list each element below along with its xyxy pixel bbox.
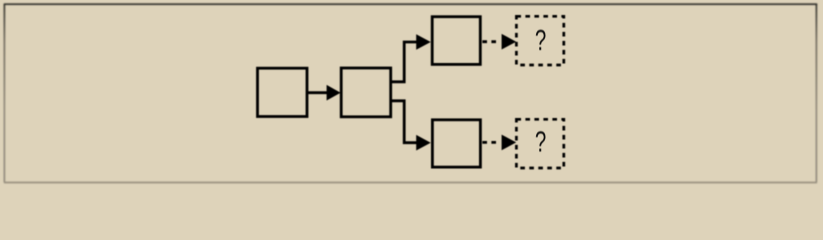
box B — [341, 68, 391, 117]
elbow arrow B to D — [391, 101, 431, 151]
dashed box bottom ? — [516, 119, 563, 168]
svg-text:?: ? — [535, 26, 546, 57]
box A — [258, 68, 308, 116]
elbow arrow B to C — [391, 34, 431, 82]
dashed arrow D to bottom ? box — [482, 135, 516, 151]
dashed arrow C to top ? box — [482, 34, 516, 50]
box C — [432, 17, 480, 65]
arrow A to B — [307, 85, 341, 101]
dashed box top ? — [516, 16, 563, 65]
box D — [432, 120, 480, 167]
svg-text:?: ? — [535, 128, 546, 159]
